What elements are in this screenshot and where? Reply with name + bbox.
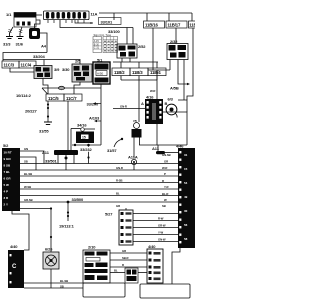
svg-text:A: A bbox=[141, 101, 144, 106]
wire GN-R into 4/16 A bbox=[113, 108, 145, 110]
wires relay 2/52 down bbox=[122, 58, 130, 62]
svg-text:W-R: W-R bbox=[162, 166, 167, 170]
svg-text:1/1: 1/1 bbox=[6, 12, 12, 17]
svg-text:4/40: 4/40 bbox=[148, 244, 156, 249]
svg-text:11B/2: 11B/2 bbox=[114, 70, 125, 75]
bus wire labels mid bbox=[116, 166, 123, 208]
terminal box 11C/3 bbox=[2, 61, 19, 68]
svg-text:11C/7: 11C/7 bbox=[66, 96, 77, 101]
svg-text:SB: SB bbox=[60, 284, 64, 288]
svg-text:11B/1: 11B/1 bbox=[189, 23, 195, 28]
svg-text:5/2: 5/2 bbox=[3, 143, 9, 148]
wire 4/16 bottom down bbox=[156, 124, 158, 145]
switch 3/9 bbox=[34, 66, 70, 79]
fuse output stubs bbox=[48, 20, 84, 23]
svg-text:31: 31 bbox=[184, 153, 188, 157]
wire 11B/18 down bbox=[187, 28, 193, 100]
svg-text:R-SB: R-SB bbox=[116, 179, 123, 183]
svg-text:4 P: 4 P bbox=[4, 190, 9, 194]
svg-text:2/52: 2/52 bbox=[138, 44, 146, 49]
terminal box 11B/4 bbox=[148, 68, 166, 76]
svg-text:GN: GN bbox=[24, 147, 28, 151]
wire down to horn 7/5 bbox=[138, 80, 140, 122]
svg-text:GR-SB: GR-SB bbox=[24, 198, 33, 202]
svg-text:6/26: 6/26 bbox=[45, 247, 53, 252]
connector 4/40 right bbox=[147, 244, 163, 283]
svg-text:11A: 11A bbox=[91, 12, 98, 17]
wire 6/26 down to bottom run bbox=[50, 269, 52, 288]
svg-text:11B/16: 11B/16 bbox=[145, 23, 158, 28]
svg-text:A4: A4 bbox=[41, 44, 47, 49]
svg-text:33/232: 33/232 bbox=[80, 147, 93, 152]
svg-text:C 31: C 31 bbox=[94, 47, 100, 50]
wire ground lead right bbox=[20, 27, 22, 33]
wire 11B/17 to relay 2/32 bbox=[175, 28, 177, 44]
wire 11C/5 down with 20/227 connector bbox=[47, 101, 49, 122]
svg-text:BL: BL bbox=[114, 269, 118, 273]
svg-text:B: B bbox=[165, 101, 168, 106]
ground 31/6 bbox=[17, 33, 24, 39]
svg-text:33/500: 33/500 bbox=[72, 197, 85, 202]
svg-text:SB-R: SB-R bbox=[122, 256, 129, 260]
terminal box 11B/18 bbox=[189, 21, 196, 28]
wire branch to switch 3/9 bbox=[3, 60, 80, 65]
svg-text:GN-R: GN-R bbox=[116, 166, 123, 170]
inline connector mid bottom bbox=[125, 268, 138, 283]
wires 2/10 to 4/40 bbox=[110, 253, 147, 273]
svg-text:31/57: 31/57 bbox=[107, 148, 117, 153]
svg-text:2 Y: 2 Y bbox=[4, 203, 8, 207]
svg-text:31/55: 31/55 bbox=[39, 129, 49, 134]
svg-text:A11A: A11A bbox=[128, 155, 138, 160]
wire fuse output ref arrow upper bbox=[75, 20, 93, 23]
wires below 11B boxes bbox=[121, 76, 157, 80]
2/10 wire labels bbox=[114, 249, 129, 273]
wires 33/100 into relay 2/52 bbox=[127, 28, 133, 45]
wire 11C/3 to switch bbox=[10, 68, 34, 72]
label 33/101 bbox=[99, 18, 122, 25]
svg-text:34/16: 34/16 bbox=[77, 123, 87, 128]
svg-text:BL-SB: BL-SB bbox=[60, 279, 68, 283]
arrow 33/200 bbox=[95, 103, 101, 105]
5/27 wire labels bbox=[158, 217, 166, 242]
terminal box 11C/4 bbox=[19, 61, 36, 68]
wire branch junction bbox=[50, 207, 52, 209]
svg-text:6 GR: 6 GR bbox=[4, 177, 12, 181]
svg-text:19/113:1: 19/113:1 bbox=[59, 224, 75, 229]
svg-text:GN-R: GN-R bbox=[120, 105, 127, 109]
svg-text:10/114:2: 10/114:2 bbox=[16, 93, 32, 98]
svg-text:GR: GR bbox=[164, 160, 168, 164]
svg-text:8 SB: 8 SB bbox=[4, 164, 12, 168]
connector 5/27 bbox=[105, 210, 133, 245]
svg-text:31/6: 31/6 bbox=[16, 42, 24, 47]
clock 6/26 bbox=[43, 247, 59, 270]
svg-text:6/3: 6/3 bbox=[168, 97, 174, 102]
svg-text:GR: GR bbox=[116, 204, 120, 208]
svg-text:A11: A11 bbox=[152, 146, 160, 151]
svg-text:31/3: 31/3 bbox=[3, 42, 11, 47]
wire switch 3/9 down to 11C/5 bbox=[43, 79, 48, 95]
ground 31/3 bbox=[6, 33, 13, 39]
svg-text:11C/5: 11C/5 bbox=[48, 96, 59, 101]
svg-text:30: 30 bbox=[184, 209, 188, 213]
wire 1/1 to connector bbox=[35, 20, 41, 28]
terminal box 11B/2 bbox=[112, 68, 130, 76]
connector 4/46 right block bbox=[176, 144, 195, 249]
wire top line to 11B bracket bbox=[99, 12, 192, 14]
wires 5/27 to 4/46 bbox=[133, 214, 178, 242]
terminal box 11B/16 bbox=[144, 21, 165, 28]
arrow A/103 bbox=[96, 120, 101, 122]
wire connector to 33/204 run bbox=[40, 33, 47, 53]
terminal box 11C/7 bbox=[64, 94, 82, 101]
connector 4/40C left block bbox=[8, 244, 24, 288]
svg-text:Sign Circ. Type: Sign Circ. Type bbox=[94, 33, 112, 37]
svg-text:5/27: 5/27 bbox=[105, 212, 113, 217]
svg-text:BL: BL bbox=[116, 192, 120, 196]
legend table bbox=[93, 33, 118, 53]
terminal box 11B/3 bbox=[130, 68, 148, 76]
wire 11C/7 down to A11 bbox=[67, 101, 69, 150]
splice 10/114:2 line bbox=[42, 87, 101, 89]
svg-text:9 GN: 9 GN bbox=[4, 157, 11, 161]
svg-text:BL-SB: BL-SB bbox=[24, 172, 32, 176]
svg-text:Y-R: Y-R bbox=[164, 185, 168, 189]
wire ground lead left bbox=[10, 27, 14, 33]
svg-text:SB: SB bbox=[162, 204, 166, 208]
svg-text:Y-W: Y-W bbox=[158, 231, 163, 235]
svg-text:A/103: A/103 bbox=[89, 116, 100, 121]
svg-text:3/9: 3/9 bbox=[54, 67, 60, 72]
wire into 34/16 bbox=[71, 128, 81, 130]
wire drop to 33/101 bbox=[113, 13, 115, 20]
wire 33/232 junction line bbox=[72, 144, 101, 146]
svg-text:GR-W: GR-W bbox=[158, 224, 166, 228]
wire header over 11B/2-4 bbox=[113, 61, 158, 63]
wire 33/100 run from fuse bbox=[60, 20, 133, 28]
svg-text:33/501: 33/501 bbox=[45, 159, 58, 164]
ignition coil 1/1 bbox=[6, 12, 36, 27]
connector black square after 1/1 bbox=[29, 28, 40, 39]
svg-text:C: C bbox=[12, 264, 17, 270]
control unit 5/1 bbox=[93, 58, 110, 85]
svg-text:2/5: 2/5 bbox=[75, 59, 81, 64]
wire node down 19/113:1 bbox=[67, 202, 69, 221]
svg-text:GR: GR bbox=[122, 249, 126, 253]
wire relay 2/32 to A/58 arrow bbox=[178, 60, 188, 85]
wire loop bottom bbox=[139, 144, 187, 146]
svg-text:20/227: 20/227 bbox=[25, 109, 38, 114]
svg-text:A/5B: A/5B bbox=[170, 86, 179, 91]
wire 11B/17 pin2 down bbox=[183, 60, 185, 101]
svg-text:4/16: 4/16 bbox=[146, 95, 154, 100]
svg-text:15: 15 bbox=[184, 167, 188, 171]
switch pack 2/10 bbox=[83, 245, 110, 284]
wire 4/40C up to 5/2 bbox=[12, 211, 29, 250]
crimp loop bbox=[59, 86, 65, 89]
svg-text:4/46: 4/46 bbox=[176, 144, 184, 149]
bracket drops over 11B/16-18 bbox=[147, 13, 192, 21]
svg-text:33/204: 33/204 bbox=[33, 54, 46, 59]
ground 31/55 bbox=[44, 122, 52, 125]
svg-text:R-W: R-W bbox=[158, 217, 164, 221]
svg-text:GN-SB: GN-SB bbox=[162, 153, 171, 157]
svg-text:BL-R: BL-R bbox=[162, 192, 168, 196]
svg-text:7 BL: 7 BL bbox=[4, 170, 11, 174]
svg-text:R: R bbox=[122, 263, 124, 267]
bus wires bbox=[20, 151, 178, 252]
svg-text:P: P bbox=[164, 172, 166, 176]
svg-text:15: 15 bbox=[82, 135, 86, 139]
wire 4/16 B through 6/3 loop bbox=[163, 112, 187, 145]
svg-text:SB: SB bbox=[24, 160, 28, 164]
sensor 6/3 bbox=[166, 97, 177, 118]
connector 4/16 bbox=[141, 95, 168, 125]
svg-text:33/101: 33/101 bbox=[101, 19, 114, 24]
wire relay 2/32 to 4/16 bbox=[169, 60, 171, 71]
wire 5/1 down bbox=[100, 84, 102, 145]
bus wire labels left bbox=[24, 147, 33, 202]
svg-text:11C/4: 11C/4 bbox=[21, 63, 32, 68]
right stub labels bbox=[162, 153, 171, 208]
enclosure box left bbox=[83, 283, 125, 297]
wire 11B/16 down long bbox=[152, 28, 154, 70]
svg-text:3/30: 3/30 bbox=[62, 67, 70, 72]
wire L into 6/3 bbox=[178, 100, 187, 112]
terminal box 11B/17 bbox=[166, 21, 187, 28]
svg-text:W-R: W-R bbox=[150, 89, 155, 93]
connector 5/2 left block bbox=[2, 143, 20, 211]
svg-text:11C/3: 11C/3 bbox=[4, 63, 15, 68]
node 33/500 bbox=[67, 201, 70, 204]
relay 2/52 bbox=[117, 44, 146, 58]
svg-text:4/40: 4/40 bbox=[10, 244, 18, 249]
svg-text:49: 49 bbox=[184, 195, 188, 199]
svg-text:R: R bbox=[162, 179, 164, 183]
svg-text:W-SB: W-SB bbox=[24, 185, 31, 189]
svg-text:A/50: A/50 bbox=[97, 72, 104, 76]
svg-text:11B/4: 11B/4 bbox=[150, 70, 161, 75]
fuse box 11A bbox=[44, 11, 98, 20]
svg-text:10 RT: 10 RT bbox=[4, 151, 12, 155]
wire switch 2/5 down to 11C/7 bbox=[74, 82, 80, 94]
svg-text:54: 54 bbox=[184, 181, 188, 185]
switch 2/5 bbox=[72, 59, 92, 83]
enclosure box right bbox=[140, 284, 190, 298]
ground pigtail 31/57 bbox=[114, 140, 121, 148]
wires below A11 bar bbox=[58, 155, 74, 170]
svg-text:56: 56 bbox=[184, 223, 188, 227]
wire 1/1 to fuse strip bbox=[36, 14, 42, 16]
horn 7/5 bbox=[132, 119, 142, 138]
wire bottom run bbox=[24, 282, 83, 284]
wire bus into 5/27 bbox=[125, 208, 127, 210]
wire 4/46 bottom loop bbox=[172, 248, 180, 284]
wire 33/204 horizontal bbox=[3, 53, 47, 62]
wires below horn bbox=[133, 138, 135, 159]
svg-text:11B/17: 11B/17 bbox=[168, 23, 181, 28]
svg-text:2/10: 2/10 bbox=[88, 245, 96, 250]
relay 2/32 bbox=[167, 39, 188, 60]
svg-text:5 W: 5 W bbox=[4, 183, 10, 187]
svg-text:58: 58 bbox=[184, 237, 188, 241]
svg-text:GN-W: GN-W bbox=[158, 238, 166, 242]
terminal box 11C/5 bbox=[46, 94, 64, 101]
svg-text:33/200: 33/200 bbox=[87, 102, 100, 107]
svg-text:11B/3: 11B/3 bbox=[132, 70, 143, 75]
